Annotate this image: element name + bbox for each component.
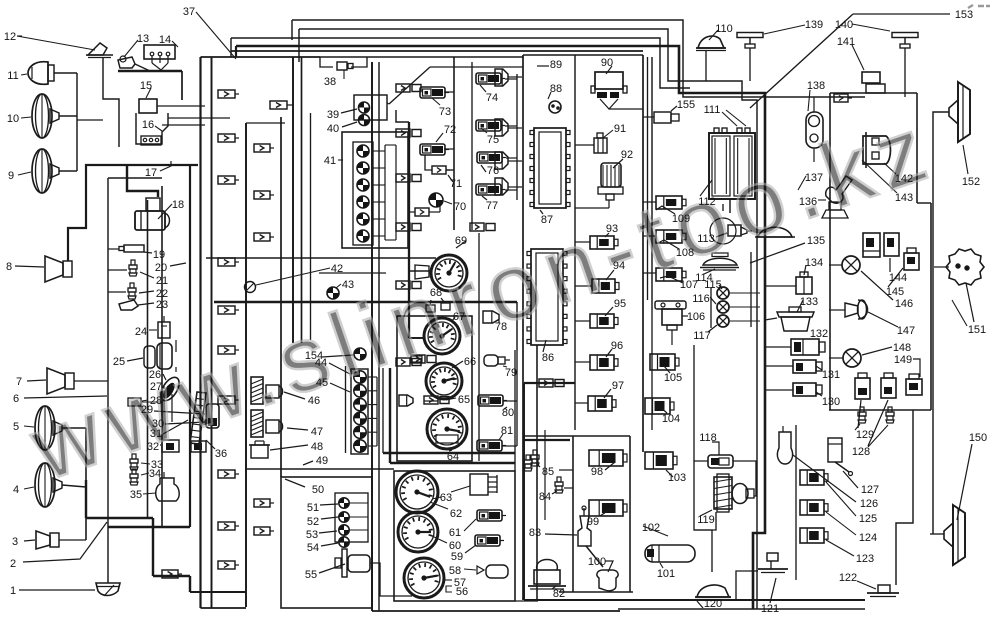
svg-text:121: 121 — [761, 603, 779, 615]
svg-text:10: 10 — [7, 113, 19, 125]
svg-text:36: 36 — [215, 448, 227, 460]
svg-text:2: 2 — [10, 558, 16, 570]
svg-text:54: 54 — [307, 542, 319, 554]
svg-text:111: 111 — [704, 104, 721, 116]
svg-text:117: 117 — [693, 330, 711, 342]
svg-text:120: 120 — [704, 598, 722, 610]
svg-text:110: 110 — [715, 23, 733, 35]
svg-text:6: 6 — [13, 393, 19, 405]
svg-text:11: 11 — [7, 70, 18, 82]
svg-text:40: 40 — [327, 123, 339, 135]
svg-text:15: 15 — [140, 80, 152, 92]
svg-text:60: 60 — [449, 540, 461, 552]
svg-text:100: 100 — [588, 556, 606, 568]
svg-text:147: 147 — [897, 325, 915, 337]
svg-text:119: 119 — [697, 514, 715, 526]
svg-text:106: 106 — [687, 311, 705, 323]
svg-text:133: 133 — [800, 296, 818, 308]
svg-text:70: 70 — [454, 201, 466, 213]
svg-text:85: 85 — [542, 466, 554, 478]
svg-text:23: 23 — [156, 299, 168, 311]
svg-text:12: 12 — [4, 31, 16, 43]
svg-text:49: 49 — [316, 455, 328, 467]
svg-text:69: 69 — [455, 235, 467, 247]
svg-text:109: 109 — [672, 213, 690, 225]
svg-text:75: 75 — [487, 134, 499, 146]
svg-text:91: 91 — [614, 123, 626, 135]
svg-text:84: 84 — [539, 491, 551, 503]
svg-text:83: 83 — [529, 527, 541, 539]
svg-text:102: 102 — [642, 522, 660, 534]
svg-text:65: 65 — [458, 394, 470, 406]
svg-text:155: 155 — [677, 99, 695, 111]
svg-text:143: 143 — [895, 192, 913, 204]
svg-text:88: 88 — [550, 83, 562, 95]
svg-text:50: 50 — [312, 484, 324, 496]
svg-text:24: 24 — [135, 326, 147, 338]
svg-text:104: 104 — [662, 413, 680, 425]
svg-text:89: 89 — [550, 59, 562, 71]
svg-text:66: 66 — [464, 356, 476, 368]
svg-text:138: 138 — [807, 80, 825, 92]
svg-text:38: 38 — [324, 76, 336, 88]
svg-text:123: 123 — [856, 553, 874, 565]
svg-text:14: 14 — [159, 34, 171, 46]
svg-text:151: 151 — [968, 324, 986, 336]
svg-text:68: 68 — [430, 287, 442, 299]
svg-text:148: 148 — [893, 342, 911, 354]
svg-text:27: 27 — [150, 381, 162, 393]
svg-text:128: 128 — [852, 446, 870, 458]
svg-text:79: 79 — [505, 367, 517, 379]
svg-text:87: 87 — [541, 214, 553, 226]
svg-text:77: 77 — [486, 200, 498, 212]
svg-text:62: 62 — [450, 508, 462, 520]
svg-text:118: 118 — [699, 432, 717, 444]
svg-text:108: 108 — [676, 247, 694, 259]
svg-text:129: 129 — [856, 429, 874, 441]
svg-text:20: 20 — [155, 262, 167, 274]
svg-text:42: 42 — [331, 263, 343, 275]
svg-text:21: 21 — [156, 275, 168, 287]
svg-text:152: 152 — [962, 176, 980, 188]
svg-text:82: 82 — [553, 588, 565, 600]
svg-text:55: 55 — [305, 569, 317, 581]
svg-text:13: 13 — [137, 33, 149, 45]
svg-text:98: 98 — [591, 466, 603, 478]
svg-text:99: 99 — [587, 516, 599, 528]
svg-text:73: 73 — [439, 106, 451, 118]
svg-text:53: 53 — [306, 529, 318, 541]
svg-text:95: 95 — [614, 298, 626, 310]
svg-text:29: 29 — [141, 404, 153, 416]
svg-text:17: 17 — [145, 167, 157, 179]
svg-text:41: 41 — [324, 155, 336, 167]
svg-text:113: 113 — [697, 233, 715, 245]
svg-text:115: 115 — [704, 279, 722, 291]
svg-text:97: 97 — [612, 380, 624, 392]
svg-text:58: 58 — [449, 565, 461, 577]
svg-text:142: 142 — [895, 173, 913, 185]
svg-text:132: 132 — [810, 328, 828, 340]
svg-text:153: 153 — [955, 9, 973, 21]
svg-text:139: 139 — [805, 19, 823, 31]
svg-text:37: 37 — [183, 6, 195, 18]
svg-text:16: 16 — [142, 119, 154, 131]
svg-text:105: 105 — [664, 372, 682, 384]
svg-text:112: 112 — [698, 196, 716, 208]
svg-text:149: 149 — [894, 354, 912, 366]
svg-text:61: 61 — [449, 527, 461, 539]
svg-text:48: 48 — [311, 441, 323, 453]
svg-text:31: 31 — [150, 428, 162, 440]
svg-text:52: 52 — [307, 516, 319, 528]
svg-text:126: 126 — [860, 498, 878, 510]
svg-text:74: 74 — [486, 92, 498, 104]
svg-text:130: 130 — [822, 396, 840, 408]
svg-text:72: 72 — [444, 124, 456, 136]
svg-text:76: 76 — [487, 165, 499, 177]
svg-text:154: 154 — [305, 350, 323, 362]
svg-text:134: 134 — [805, 257, 823, 269]
svg-text:125: 125 — [859, 513, 877, 525]
svg-text:140: 140 — [835, 19, 853, 31]
svg-text:137: 137 — [805, 172, 823, 184]
svg-text:64: 64 — [447, 451, 459, 463]
svg-text:144: 144 — [889, 272, 907, 284]
svg-text:7: 7 — [16, 376, 22, 388]
svg-text:45: 45 — [316, 377, 328, 389]
svg-text:46: 46 — [308, 395, 320, 407]
svg-text:86: 86 — [542, 352, 554, 364]
svg-text:63: 63 — [440, 492, 452, 504]
svg-text:103: 103 — [668, 472, 686, 484]
svg-text:67: 67 — [453, 311, 465, 323]
svg-text:141: 141 — [837, 36, 855, 48]
svg-text:4: 4 — [13, 484, 19, 496]
svg-text:96: 96 — [611, 340, 623, 352]
svg-text:43: 43 — [342, 279, 354, 291]
svg-text:136: 136 — [799, 196, 817, 208]
svg-text:8: 8 — [6, 261, 12, 273]
svg-text:145: 145 — [886, 286, 904, 298]
svg-text:81: 81 — [501, 425, 513, 437]
svg-text:25: 25 — [113, 356, 125, 368]
svg-text:3: 3 — [12, 536, 18, 548]
svg-text:5: 5 — [13, 421, 19, 433]
svg-text:78: 78 — [495, 321, 507, 333]
svg-text:146: 146 — [895, 298, 913, 310]
svg-text:57: 57 — [454, 577, 466, 589]
svg-text:135: 135 — [807, 235, 825, 247]
svg-text:1: 1 — [10, 585, 16, 597]
svg-text:93: 93 — [606, 223, 618, 235]
svg-text:32: 32 — [147, 441, 159, 453]
svg-text:92: 92 — [621, 149, 633, 161]
svg-text:18: 18 — [172, 199, 184, 211]
svg-text:39: 39 — [327, 109, 339, 121]
svg-text:19: 19 — [153, 249, 165, 261]
svg-text:71: 71 — [450, 178, 462, 190]
svg-text:127: 127 — [861, 484, 879, 496]
svg-text:131: 131 — [822, 369, 840, 381]
svg-text:35: 35 — [130, 489, 142, 501]
svg-text:80: 80 — [502, 407, 514, 419]
svg-text:47: 47 — [311, 426, 323, 438]
svg-text:150: 150 — [969, 432, 987, 444]
svg-text:116: 116 — [692, 293, 710, 305]
svg-text:26: 26 — [149, 369, 161, 381]
svg-text:101: 101 — [657, 568, 675, 580]
svg-text:59: 59 — [451, 551, 463, 563]
svg-text:51: 51 — [307, 502, 319, 514]
svg-text:124: 124 — [859, 532, 877, 544]
svg-text:122: 122 — [839, 572, 857, 584]
svg-text:94: 94 — [613, 260, 625, 272]
svg-text:34: 34 — [149, 468, 161, 480]
svg-text:90: 90 — [601, 57, 613, 69]
svg-text:9: 9 — [8, 170, 14, 182]
